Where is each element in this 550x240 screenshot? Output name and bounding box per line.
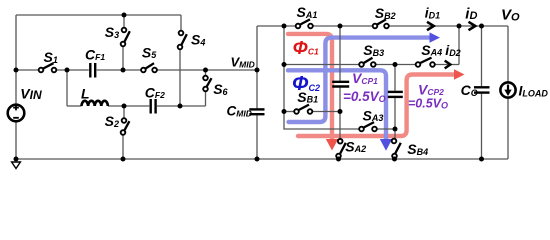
node S2 top <box>122 104 127 109</box>
wire S6 top stem <box>205 70 207 76</box>
capacitor C_MID <box>249 109 264 114</box>
node mid row x284 <box>282 62 287 67</box>
node Vmid / C_MID <box>255 68 260 73</box>
phase path phi_C1 red segment 1 (S_A1 to S_A2) <box>288 34 332 141</box>
capacitor V_CP2 <box>388 92 403 97</box>
node row129 / VCP2 bottom <box>393 127 398 132</box>
switch S_B2 <box>373 19 389 28</box>
wire Vmid row: CF1 to S5 <box>97 69 141 71</box>
phase path phi_C2 blue segment 2 (S_B1 to S_B2 output) <box>289 38 431 122</box>
wire VCP1 vertical bottom to S_A2 <box>339 88 341 139</box>
node top rail x459 <box>457 24 462 29</box>
capacitor V_CP1 <box>332 82 349 87</box>
switch S4 <box>178 31 187 50</box>
wire mid row: S_A4 to output riser <box>435 64 459 66</box>
node top rail / S3 <box>122 13 127 18</box>
node S2 bottom rail <box>121 157 126 162</box>
wire top rail: S_B2 to Vo corner <box>389 25 508 27</box>
wire S_B1 row right <box>312 111 340 113</box>
wire i_D2 join vertical <box>458 26 460 65</box>
wire S_A2 bottom stem <box>338 157 340 160</box>
wire top rail: Vmid corner to S_A1 <box>257 25 296 27</box>
node S_B1 right / VCP1 bottom <box>338 109 343 114</box>
node S6 top <box>203 68 208 73</box>
wire VCP2 vertical bottom <box>394 98 396 129</box>
node C_MID bottom rail <box>255 157 260 162</box>
node bottom rail left <box>14 157 19 162</box>
current arrow i_D1 <box>427 22 434 30</box>
switch S_A1 <box>296 19 313 28</box>
wire I_LOAD vertical below <box>507 98 509 160</box>
wire L row: CF2 to S6 <box>157 105 206 107</box>
wire C_O vertical above <box>481 26 483 86</box>
wire Vmid row: S5 to C_MID node <box>157 69 257 71</box>
switch S2 <box>121 118 130 135</box>
source I_LOAD <box>500 82 515 97</box>
switch S_A3 <box>359 122 377 131</box>
wire Vmid row: Vin node to S1 <box>16 69 39 71</box>
wire L row: inductor to CF2 <box>108 105 149 107</box>
source VIN <box>8 105 25 122</box>
switch S_A2 <box>336 139 346 158</box>
svg-text:VIN: VIN <box>20 85 42 102</box>
node S_B1 left <box>282 109 287 114</box>
wire bottom rail <box>16 158 508 160</box>
node top rail C_O <box>479 24 484 29</box>
node S_A2 bottom rail <box>336 157 341 162</box>
wire S2 bottom stem <box>122 135 124 159</box>
switch S_B1 <box>294 105 312 114</box>
wire mid row: Vmid drop to S_B3 <box>284 64 359 66</box>
node top rail x284 <box>282 24 287 29</box>
wire branch CF1/L node <box>66 70 68 106</box>
node top rail x339 <box>338 24 343 29</box>
svg-text:L: L <box>81 86 90 102</box>
wire I_LOAD vertical above <box>507 26 509 83</box>
wire S3 bottom stem <box>122 46 124 70</box>
inductor L <box>82 101 108 106</box>
phase path phi_C1 red segment 2 (S_A3 to S_A4 output) <box>298 75 454 137</box>
switch S1 <box>39 63 57 72</box>
node Vin / row Vmid <box>14 68 19 73</box>
capacitor C_O <box>474 87 490 92</box>
red arrowhead down at S_A2 <box>326 139 338 151</box>
wire Vmid vertical below C_MID <box>256 115 258 159</box>
capacitor CF2 <box>151 99 156 114</box>
wire top rail: S_A1 to S_B2 <box>313 25 373 27</box>
wire L row: lead to inductor <box>67 105 82 107</box>
wire VCP1 vertical top <box>339 26 341 81</box>
wire Vmid row: S1 to CF1 <box>56 69 88 71</box>
red arrowhead right at output <box>454 69 465 79</box>
switch S_B4 <box>392 139 401 159</box>
blue arrowhead right at i_D1 <box>430 32 441 42</box>
wire C_O vertical below <box>481 94 483 159</box>
current arrow i_D <box>469 22 476 30</box>
node S_B4 bottom rail <box>392 157 397 162</box>
wire S2 top stem <box>123 106 125 118</box>
wire S_B1 row left <box>284 111 294 113</box>
wire S_A3 right to VCP2 bottom <box>377 128 395 130</box>
wire left vertical (Vin branch bottom) <box>15 122 17 160</box>
wire top-left rail <box>16 14 181 16</box>
switch S5 <box>141 63 157 72</box>
ground <box>12 162 21 169</box>
phase path phi_C2 blue segment 1 (S_B3 to S_B4) <box>288 70 386 141</box>
wire S6 bottom stem <box>205 91 207 106</box>
node S3 bottom <box>121 68 126 73</box>
node S4 bottom <box>178 104 183 109</box>
wire S_B4 top stem <box>394 129 396 139</box>
wire S4 top stem <box>180 15 182 31</box>
wire left vertical (Vin branch top) <box>15 15 17 105</box>
switch S_A4 <box>416 58 435 67</box>
blue arrowhead down at S_B4 <box>380 139 392 151</box>
wire S4 bottom stem <box>179 49 181 106</box>
wire S_B4 bottom stem <box>394 157 396 160</box>
capacitor CF1 <box>90 63 95 78</box>
wire mid row: S_B3 to S_A4 <box>376 64 416 66</box>
node S1 / CF1 branch <box>65 68 70 73</box>
wire VCP2 vertical top <box>394 65 396 91</box>
wire S3 top stem <box>123 15 125 28</box>
switch S_B3 <box>359 58 375 67</box>
wire Vmid vertical above C_MID <box>256 26 258 108</box>
node C_O bottom rail <box>479 157 484 162</box>
switch S6 <box>203 76 211 92</box>
switch S3 <box>121 28 130 47</box>
wire x284 down to row129 <box>284 112 359 130</box>
current arrow i_D2 <box>445 61 451 69</box>
node mid row VCP2 <box>393 62 398 67</box>
wire Vmid drop x284 <box>283 26 285 112</box>
